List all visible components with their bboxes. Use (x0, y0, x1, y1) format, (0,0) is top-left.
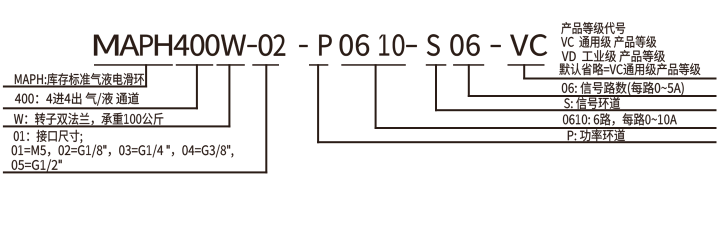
right text product grade title (561, 22, 625, 34)
title segment 06 (signal circuits) (450, 34, 479, 56)
title dash 1 (299, 45, 307, 47)
drop line to row P (317, 64, 319, 143)
title segment P (319, 35, 332, 56)
tick under 02 (252, 64, 279, 66)
tick under W (217, 64, 245, 66)
tick under P (309, 64, 328, 66)
tick under VC (508, 64, 545, 66)
row text 01 meaning line 2 (12, 145, 234, 158)
title dash 2 (406, 45, 417, 47)
underline row 01 (3, 171, 267, 173)
title segment 10 (379, 34, 404, 56)
underline row W (3, 125, 231, 127)
drop line to row S (435, 64, 437, 111)
drop line to row 400 (196, 64, 198, 109)
drop line to row 01 (265, 64, 267, 173)
row text 01 meaning line 1 (14, 130, 82, 143)
tick under 06 (453, 64, 484, 66)
right text P power channel (568, 129, 625, 141)
right text VD grade (562, 50, 665, 62)
separator line under S row (435, 109, 717, 111)
drop line to row 0610 (375, 64, 377, 129)
right text default grade (559, 63, 700, 75)
underline row MAPH (3, 86, 147, 88)
tick under 400 (176, 64, 213, 66)
row text 01 meaning line 3 (12, 159, 62, 172)
title segment VC (510, 34, 547, 56)
right text 0610 meaning (563, 113, 677, 125)
title segment 06 (power circuits) (340, 34, 370, 56)
separator line under P row (317, 141, 716, 143)
tick under 06 10 (341, 64, 406, 66)
right text VC grade (561, 36, 656, 48)
title segment MAPH400W-02 (94, 34, 285, 56)
title segment S (427, 34, 440, 56)
separator line under grade block (523, 78, 716, 80)
right text 06 signal count (562, 82, 684, 96)
row text 400 meaning (15, 92, 139, 105)
drop line to row MAPH (145, 64, 147, 87)
tick under MAPH (94, 64, 173, 66)
drop line to row W (228, 64, 230, 127)
title dash 3 (491, 45, 501, 47)
underline row 400 (3, 107, 198, 109)
row text W meaning (14, 113, 163, 125)
drop line to product grade block (523, 64, 525, 79)
right text S signal channel (564, 97, 620, 109)
tick under S (426, 64, 447, 66)
row text MAPH meaning (15, 73, 144, 85)
drop line to row 06 (468, 64, 470, 97)
separator line under 0610 row (375, 127, 717, 129)
separator line under 06 row (468, 95, 717, 97)
